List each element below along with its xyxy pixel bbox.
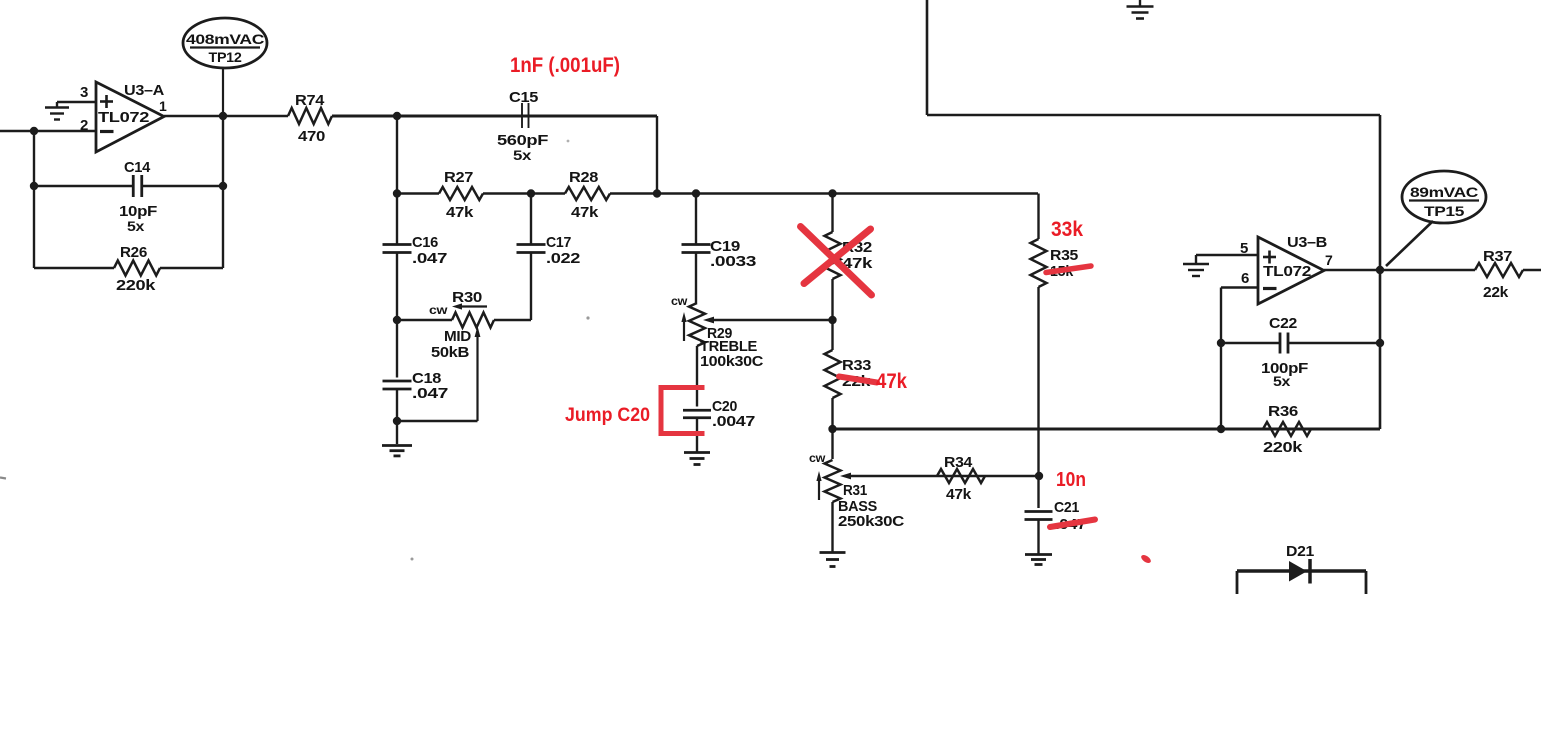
svg-text:cw: cw [809, 453, 825, 465]
svg-text:7: 7 [1325, 252, 1333, 268]
resistor R27 [439, 187, 483, 200]
node row x531 [527, 189, 535, 197]
wire node to ground [396, 421, 398, 444]
ground U3-A pin3 [45, 108, 69, 120]
svg-text:50kB: 50kB [431, 345, 469, 361]
resistor R74 [288, 108, 332, 124]
label C14 5x [127, 218, 145, 234]
label 220k R26 [116, 277, 156, 294]
node R34 right [1035, 472, 1043, 480]
svg-text:.047: .047 [412, 250, 447, 267]
label C15 [509, 89, 538, 106]
wire TP12 stem [222, 67, 224, 116]
label R28 [569, 169, 598, 186]
wire U3-A pin 3 to ground [57, 102, 96, 107]
label D21 [1286, 543, 1314, 560]
wire pin6 stub [1221, 288, 1258, 344]
capacitor C17 [517, 245, 546, 253]
label 470 [298, 128, 325, 145]
svg-text:R30: R30 [452, 289, 482, 306]
svg-text:.0047: .0047 [712, 413, 755, 430]
svg-text:R34: R34 [944, 454, 973, 471]
svg-text:220k: 220k [116, 277, 156, 294]
node top junction x397 [393, 112, 401, 120]
red strike R35 [1046, 266, 1091, 273]
label .0047 [712, 413, 755, 430]
node output junction TP12 [219, 112, 227, 120]
wire long feedback [833, 428, 1381, 431]
svg-text:5x: 5x [1273, 373, 1291, 389]
label R34 [944, 454, 973, 471]
svg-text:R74: R74 [295, 92, 325, 109]
label .0033 [710, 253, 756, 270]
wire right vertical x1380 [1379, 115, 1382, 429]
wire U3-A output [164, 115, 288, 118]
pin 1 label [159, 98, 167, 114]
svg-text:R37: R37 [1483, 248, 1512, 265]
label 560pF [497, 132, 548, 149]
capacitor C21 [1025, 512, 1053, 520]
red note 47k [876, 370, 907, 393]
svg-text:R36: R36 [1268, 403, 1298, 420]
svg-text:6: 6 [1241, 270, 1249, 287]
label R27 [444, 169, 473, 186]
svg-text:408mVAC: 408mVAC [186, 31, 264, 47]
resistor R33 [825, 350, 841, 398]
label R29 [707, 325, 732, 342]
svg-text:R31: R31 [843, 482, 867, 499]
red note 33k [1051, 218, 1083, 241]
wiper R31 arm [840, 473, 1039, 480]
potentiometer R30 MID [397, 313, 531, 328]
label C21 [1054, 499, 1079, 516]
label U3-A [124, 82, 164, 99]
svg-text:C21: C21 [1054, 499, 1079, 516]
wire R74 to C15 [332, 115, 657, 118]
wire row to R27 [397, 192, 439, 194]
wire C21 to ground [1037, 520, 1039, 555]
svg-text:R26: R26 [120, 244, 147, 261]
svg-text:47k: 47k [876, 370, 907, 393]
label R74 [295, 92, 325, 109]
node C14 right [219, 182, 227, 190]
wire C17 column [530, 194, 532, 245]
node row x696 [692, 189, 700, 197]
label 220k R36 [1263, 439, 1303, 456]
capacitor C18 [383, 381, 412, 389]
label C18 [412, 370, 441, 387]
ground below C21 [1025, 555, 1052, 565]
resistor R32 [825, 232, 841, 279]
wire C19 to R29 [695, 253, 697, 304]
pin 3 label [80, 84, 88, 101]
node C22 right [1376, 339, 1384, 347]
red X over R32 [801, 227, 872, 296]
label .047 C21 [1055, 516, 1086, 533]
ground top floating [1127, 0, 1154, 19]
node R30 left [393, 316, 401, 324]
svg-text:Jump C20: Jump C20 [565, 405, 650, 426]
svg-text:R28: R28 [569, 169, 598, 186]
wire output vertical to feedback [222, 116, 224, 268]
wire x397 to C16 [396, 194, 398, 245]
svg-text:C14: C14 [124, 159, 151, 176]
svg-text:R27: R27 [444, 169, 473, 186]
wire top vertical x927 [926, 0, 929, 115]
svg-text:10n: 10n [1056, 469, 1086, 491]
wire R37 right [1523, 269, 1541, 272]
label R30 [452, 289, 482, 306]
wire R32 to node [831, 279, 833, 320]
label C20 [712, 398, 737, 415]
wire node to R28 [531, 192, 565, 194]
speck left edge [0, 478, 6, 479]
wire R31 to ground [831, 502, 833, 552]
svg-text:220k: 220k [1263, 439, 1303, 456]
wire x832 to R32 [831, 194, 833, 233]
label BASS [838, 499, 878, 515]
svg-text:100k30C: 100k30C [700, 354, 764, 370]
svg-text:TL072: TL072 [1263, 263, 1311, 280]
wire U3-B pin5 to ground [1196, 255, 1258, 263]
diode D21 wire [1237, 571, 1366, 594]
svg-text:BASS: BASS [838, 499, 878, 515]
wire corner to R35 [1037, 194, 1039, 240]
wire C15 down corner [656, 116, 658, 194]
op-amp U3-B [1258, 237, 1324, 304]
label 15k R35 [1050, 263, 1074, 280]
label 50kB [431, 345, 469, 361]
wire C18 to node [396, 389, 398, 421]
node R36 left [1217, 425, 1225, 433]
label C15 5x [513, 147, 532, 163]
svg-text:3: 3 [80, 84, 88, 101]
svg-text:TP12: TP12 [209, 49, 243, 65]
capacitor C22 [1280, 333, 1288, 354]
node C22 left [1217, 339, 1225, 347]
wire R28 to corner [610, 192, 1038, 195]
wire R30 to C18 [396, 320, 398, 378]
red strike R33 [839, 377, 877, 383]
label R32 [842, 239, 872, 256]
svg-text:5x: 5x [513, 147, 532, 163]
svg-text:250k30C: 250k30C [838, 514, 905, 530]
label 22k R37 [1483, 284, 1509, 301]
capacitor C15 [522, 103, 529, 128]
wire R27 to node [483, 192, 531, 194]
label R35 [1050, 247, 1078, 264]
pin 2 label [80, 117, 88, 134]
label R31 [843, 482, 867, 499]
wire top horizontal [927, 114, 1380, 117]
wire input net to U3-A pin 2 [0, 130, 96, 133]
label C14 [124, 159, 151, 176]
svg-text:cw: cw [429, 305, 447, 317]
wire x397 down to row [396, 116, 398, 194]
label 47k R27 [446, 204, 474, 221]
svg-text:R33: R33 [842, 357, 871, 374]
label C17 [546, 234, 571, 251]
svg-text:C16: C16 [412, 234, 438, 251]
svg-text:5: 5 [1240, 240, 1248, 257]
label .047 C16 [412, 250, 447, 267]
label 47k R32 [842, 255, 873, 272]
capacitor C14 wire [34, 185, 223, 187]
resistor R34 [937, 469, 985, 483]
ground below C18 [382, 446, 412, 456]
label R33 [842, 357, 871, 374]
capacitor C19 [682, 245, 711, 253]
label cw R30 [429, 305, 447, 317]
red note Jump C20 [565, 405, 650, 426]
svg-text:470: 470 [298, 128, 325, 145]
label R37 [1483, 248, 1512, 265]
red note 1nF [510, 54, 620, 77]
svg-text:.047: .047 [412, 385, 448, 402]
cw arrow R29 [681, 312, 686, 341]
label 100k30C [700, 354, 764, 370]
label 100pF [1261, 360, 1308, 377]
svg-text:47k: 47k [446, 204, 474, 221]
svg-text:33k: 33k [1051, 218, 1083, 241]
resistor R28 [565, 187, 610, 200]
wire pin6 vertical [1220, 343, 1222, 429]
label C22 [1269, 315, 1297, 332]
node output x1380 [1376, 266, 1384, 274]
resistor R36 [1221, 422, 1380, 436]
svg-text:U3–B: U3–B [1287, 234, 1327, 251]
label R26 [120, 244, 147, 261]
label TREBLE [700, 339, 758, 355]
label C22 5x [1273, 373, 1291, 389]
svg-text:C15: C15 [509, 89, 538, 106]
svg-text:1: 1 [159, 98, 167, 114]
cw arrow R31 [816, 471, 821, 500]
red note 10n [1056, 469, 1086, 491]
ground below C20 [684, 453, 710, 465]
label 22k R33 [842, 373, 871, 390]
label R36 [1268, 403, 1298, 420]
svg-text:.0033: .0033 [710, 253, 756, 270]
svg-text:MID: MID [444, 329, 471, 345]
potentiometer R31 BASS [825, 460, 841, 502]
svg-text:TREBLE: TREBLE [700, 339, 758, 355]
wire node to R31 [831, 429, 833, 459]
op-amp U3-A [96, 82, 164, 152]
svg-text:U3–A: U3–A [124, 82, 164, 99]
wire C20 to ground [696, 418, 698, 453]
svg-text:22k: 22k [1483, 284, 1509, 301]
pin 5 label [1240, 240, 1248, 257]
label MID [444, 329, 471, 345]
node row x832 [828, 189, 836, 197]
wire TP15 pointer [1386, 221, 1433, 266]
node treble wiper [828, 316, 836, 324]
svg-text:47k: 47k [571, 204, 599, 221]
cw arrow R30 [452, 303, 487, 309]
speck mid [411, 140, 590, 561]
label U3-B [1287, 234, 1327, 251]
wire R29 to C20 [696, 346, 698, 407]
testpoint oval TP12 [183, 18, 267, 68]
svg-text:cw: cw [671, 296, 687, 308]
svg-text:TP15: TP15 [1424, 203, 1465, 219]
svg-text:TL072: TL072 [98, 109, 149, 126]
svg-text:C17: C17 [546, 234, 571, 251]
label cw R29 [671, 296, 687, 308]
pin 7 label [1325, 252, 1333, 268]
node row x657 [653, 189, 661, 197]
label cw R31 [809, 453, 825, 465]
label C19 [710, 238, 740, 255]
capacitor C14 [133, 175, 142, 197]
label 250k30C [838, 514, 905, 530]
label TL072 U3-A [98, 109, 149, 126]
resistor R35 [1031, 239, 1047, 287]
wire C16 to R30 row [396, 253, 398, 321]
ground U3-B pin5 [1183, 264, 1209, 276]
label .022 C17 [546, 250, 580, 267]
svg-text:C22: C22 [1269, 315, 1297, 332]
wire feedback left vertical [33, 131, 35, 268]
capacitor C22 wire [1221, 342, 1380, 344]
diode D21 [1289, 559, 1310, 584]
ground below R31 [820, 553, 846, 567]
testpoint oval TP15 [1402, 171, 1486, 223]
capacitor C16 [383, 245, 412, 253]
wire node to R33 [831, 320, 833, 350]
svg-text:1nF (.001uF): 1nF (.001uF) [510, 54, 620, 77]
node junction at inverting input [30, 127, 38, 135]
resistor R26 [34, 261, 223, 276]
label .047 C18 [412, 385, 448, 402]
svg-text:D21: D21 [1286, 543, 1314, 560]
label TL072 U3-B [1263, 263, 1311, 280]
red strike C21 [1050, 520, 1095, 528]
node bass top [828, 425, 836, 433]
wire U3-B output [1324, 269, 1475, 272]
svg-text:.022: .022 [546, 250, 580, 267]
pin 6 label [1241, 270, 1249, 287]
wiper R29 arm [703, 317, 833, 324]
node row x397 [393, 189, 401, 197]
svg-text:5x: 5x [127, 218, 145, 234]
label 47k R28 [571, 204, 599, 221]
wire R35 to C21 [1037, 287, 1039, 508]
svg-text:47k: 47k [946, 486, 972, 503]
svg-text:2: 2 [80, 117, 88, 134]
capacitor C20 [683, 410, 711, 418]
red speck [1140, 553, 1152, 564]
label 47k R34 [946, 486, 972, 503]
label 10pF [119, 203, 157, 220]
svg-text:89mVAC: 89mVAC [1410, 184, 1478, 200]
svg-text:R35: R35 [1050, 247, 1078, 264]
resistor R37 [1475, 263, 1523, 277]
potentiometer R29 TREBLE [689, 303, 705, 346]
node mid wiper [393, 417, 401, 425]
wire wiper horizontal [397, 420, 478, 422]
wire x696 to C19 [695, 194, 697, 245]
label C16 [412, 234, 438, 251]
wiper R30 [475, 326, 481, 421]
red bracket Jump C20 [661, 388, 702, 434]
wire R33 to node [831, 398, 833, 429]
node C14 left [30, 182, 38, 190]
wire C17 to R30 right [530, 253, 532, 321]
